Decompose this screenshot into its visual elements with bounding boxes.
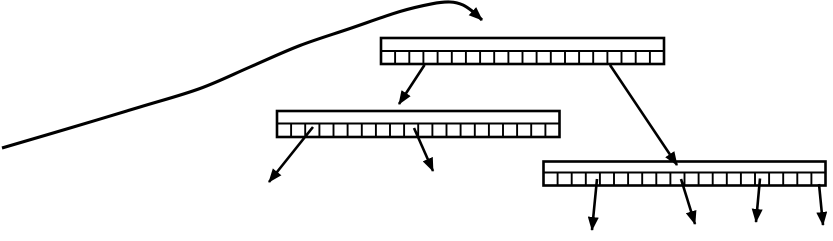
- arrow: root to left child: [399, 65, 425, 104]
- node: right child block (bottom): [544, 162, 826, 186]
- arrow: right child pointer 4: [819, 184, 823, 225]
- arrow: left child pointer 1: [269, 127, 313, 182]
- arrow: right child pointer 2: [681, 179, 695, 224]
- arrow: right child pointer 1: [592, 179, 597, 230]
- node: left child block (middle): [277, 111, 560, 137]
- curved pointer arrow into root node: [2, 2, 482, 148]
- arrow: left child pointer 2: [414, 128, 433, 171]
- node: root block (top): [381, 38, 664, 64]
- arrow: root to right child: [610, 65, 677, 165]
- arrow: right child pointer 3: [756, 179, 760, 223]
